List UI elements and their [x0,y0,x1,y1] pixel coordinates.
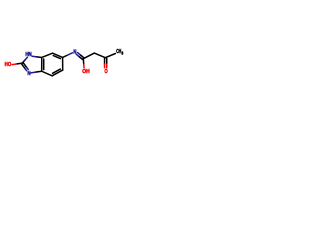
svg-text:OH: OH [82,69,90,75]
double bond C2=N3 [21,64,25,69]
bond C2-O(H) hydroxyl [12,63,17,66]
benzene ring bond C4-C3a [42,71,52,76]
bond CH2-C(=O) [94,53,105,58]
bond C6-N imine nitrogen [63,55,68,57]
double bond C=O ketone [104,58,106,64]
double bond N=C(OH) [76,54,79,57]
svg-text:O: O [104,69,107,75]
bond N1-C7a [32,55,37,58]
benzene ring double bond C5-C4 [52,70,63,76]
benzene/imidazole fusion double bond C3a-C7a [41,57,43,71]
benzene ring bond C6-C5 [62,57,64,70]
bond C2-N1 [22,60,25,63]
svg-text:HO: HO [5,62,12,68]
bond C-OH enol [82,59,84,65]
benzene ring bond C7a-C7 [42,53,53,57]
svg-text:N: N [73,50,76,56]
chemical structure: 4-(2-hydroxy-1H-benzimidazol-5-ylimino)-butan-2-one enol drawing [0,0,130,130]
benzene ring double bond C7-C6 [53,53,63,57]
bond C(=O)-CH3 [105,54,115,58]
svg-text:N: N [28,71,31,77]
bond C(OH)-CH2 [83,53,94,59]
svg-text:HN: HN [25,52,31,58]
bond N3-C3a [31,71,36,74]
